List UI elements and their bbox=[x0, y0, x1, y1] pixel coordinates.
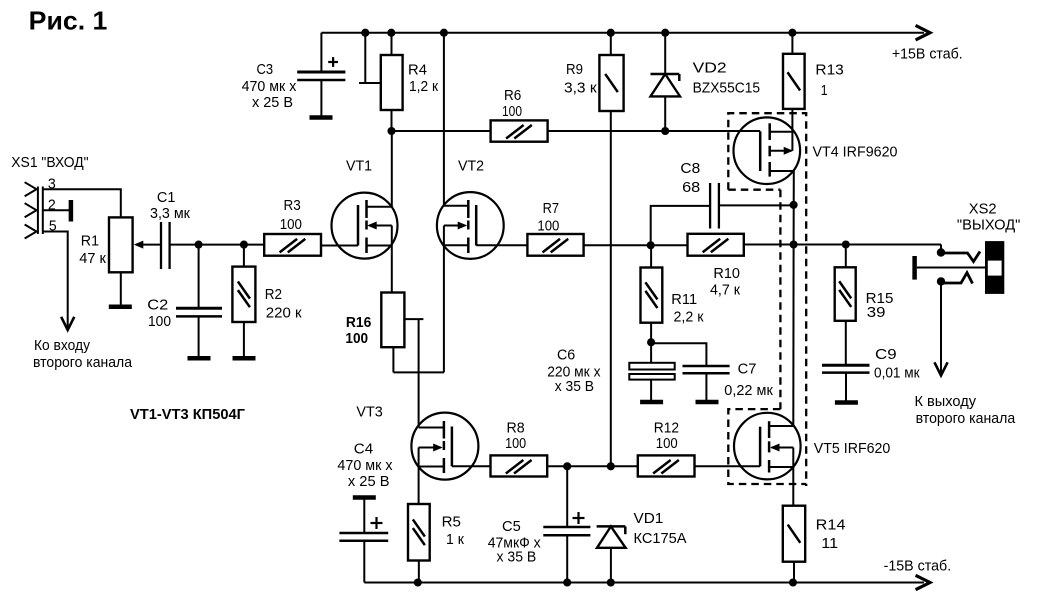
wire C1 to R3 bbox=[170, 244, 265, 246]
resistor R2 bbox=[232, 245, 302, 356]
capacitor C7 bbox=[651, 343, 773, 400]
resistor R10 bbox=[651, 234, 744, 299]
resistor R4 bbox=[381, 33, 439, 131]
svg-text:R10: R10 bbox=[713, 266, 740, 282]
svg-text:47 к: 47 к bbox=[79, 251, 106, 267]
svg-text:второго канала: второго канала bbox=[33, 355, 133, 371]
wire VT2 gate to R7 bbox=[584, 244, 651, 246]
svg-text:XS1 "ВХОД": XS1 "ВХОД" bbox=[11, 155, 88, 171]
svg-text:КС175А: КС175А bbox=[634, 531, 687, 547]
transistor VT2 bbox=[437, 33, 528, 373]
svg-text:100: 100 bbox=[345, 331, 368, 347]
junction R11-C6-C7 bbox=[647, 338, 655, 346]
svg-text:470 мк х: 470 мк х bbox=[242, 79, 297, 95]
svg-text:C3: C3 bbox=[257, 62, 274, 78]
junction C8-VT4 drain line bbox=[790, 201, 798, 209]
svg-text:100: 100 bbox=[502, 104, 522, 120]
junction R7-R10-R11-C8 node bbox=[647, 241, 655, 249]
svg-text:х 25 В: х 25 В bbox=[348, 474, 390, 490]
svg-text:+15В стаб.: +15В стаб. bbox=[892, 46, 963, 62]
junction rail-R13 bbox=[788, 29, 796, 37]
svg-text:R4: R4 bbox=[408, 63, 427, 79]
wire R12 to VT5 gate bbox=[695, 465, 761, 467]
power +15V arrow bbox=[917, 26, 930, 39]
resistor R6 bbox=[491, 88, 548, 142]
svg-text:VT2: VT2 bbox=[458, 159, 484, 175]
capacitor C2 bbox=[147, 245, 222, 356]
svg-text:К выходу: К выходу bbox=[915, 394, 977, 410]
junction VD2 anode / gate line bbox=[661, 127, 669, 135]
svg-text:VD2: VD2 bbox=[693, 61, 727, 77]
wire VT1 drain to VT4 gate line bbox=[392, 130, 761, 132]
svg-text:R3: R3 bbox=[284, 198, 301, 214]
svg-text:0,01 мк: 0,01 мк bbox=[874, 366, 920, 382]
svg-text:0,22 мк: 0,22 мк bbox=[724, 383, 773, 399]
svg-text:VT3: VT3 bbox=[356, 404, 382, 420]
resistor R7 bbox=[527, 201, 583, 256]
ground under C3 bbox=[310, 115, 333, 120]
wire XS1 pin5 down bbox=[43, 232, 68, 329]
junction output-VT4VT5 bbox=[790, 240, 798, 248]
power -15V arrow bbox=[917, 576, 930, 589]
svg-text:VT1-VT3 КП504Г: VT1-VT3 КП504Г bbox=[130, 407, 245, 423]
svg-text:3,3 к: 3,3 к bbox=[564, 81, 597, 97]
svg-text:VD1: VD1 bbox=[634, 511, 664, 527]
svg-text:2: 2 bbox=[48, 198, 56, 214]
svg-text:C7: C7 bbox=[738, 362, 757, 378]
svg-text:39: 39 bbox=[867, 305, 886, 321]
svg-text:BZX55C15: BZX55C15 bbox=[693, 81, 761, 97]
label +15V net bbox=[892, 46, 963, 62]
wire R1 bottom to ground bbox=[120, 272, 122, 305]
svg-text:220 к: 220 к bbox=[266, 305, 302, 321]
ground under R1 bbox=[109, 305, 132, 310]
junction rail-R4 bbox=[387, 29, 395, 37]
label VT1-VT3 type bbox=[130, 407, 245, 423]
svg-text:х 35 В: х 35 В bbox=[497, 550, 537, 566]
resistor R11 bbox=[641, 245, 705, 342]
svg-text:VT1: VT1 bbox=[346, 159, 372, 175]
wire +15V top rail bbox=[321, 32, 924, 34]
svg-text:XS2: XS2 bbox=[969, 202, 997, 218]
transistor VT3 bbox=[356, 404, 490, 504]
transistor VT5 IRF620 bbox=[734, 245, 890, 506]
svg-text:C5: C5 bbox=[502, 519, 521, 535]
svg-text:C4: C4 bbox=[354, 441, 373, 457]
resistor R3 bbox=[264, 198, 321, 256]
wire VT2 source to R16 bottom bbox=[393, 347, 444, 372]
resistor R15 bbox=[835, 245, 894, 365]
junction rail-VD2 bbox=[661, 29, 669, 37]
resistor R5 bbox=[408, 504, 465, 583]
wire R1 wiper arrow from C1 bbox=[134, 241, 161, 249]
ground under C7 bbox=[696, 400, 719, 405]
svg-text:х 25 В: х 25 В bbox=[252, 95, 293, 111]
svg-text:R6: R6 bbox=[504, 88, 521, 104]
wire XS1 pin3 to R1 bbox=[43, 189, 121, 217]
svg-text:R14: R14 bbox=[816, 517, 846, 533]
arrow to second channel input bbox=[62, 318, 74, 330]
svg-text:100: 100 bbox=[537, 218, 559, 234]
connector XS2 output jack bbox=[915, 202, 1021, 293]
svg-text:470 мк х: 470 мк х bbox=[337, 458, 393, 474]
resistor R12 bbox=[638, 420, 695, 476]
svg-text:11: 11 bbox=[821, 536, 838, 552]
label to output of second channel bbox=[915, 394, 1017, 427]
svg-text:100: 100 bbox=[148, 314, 171, 330]
wire R8 to R12 bias line bbox=[547, 465, 638, 467]
junction R2 node bbox=[240, 241, 248, 249]
potentiometer R1 bbox=[79, 217, 132, 272]
svg-text:R8: R8 bbox=[507, 420, 525, 436]
resistor R9 bbox=[564, 33, 624, 466]
junction rail-R9 bbox=[607, 29, 615, 37]
svg-text:C8: C8 bbox=[680, 161, 700, 177]
resistor R8 bbox=[491, 420, 548, 476]
svg-text:1 к: 1 к bbox=[446, 532, 465, 548]
junction output-R15 bbox=[842, 240, 850, 248]
wire -15V bottom rail bbox=[364, 582, 924, 584]
ground under C2 bbox=[188, 356, 211, 361]
svg-text:100: 100 bbox=[280, 217, 302, 233]
junction bias-R9VD1 bbox=[607, 462, 615, 470]
resistor R16 bbox=[345, 293, 404, 348]
svg-text:VT5 IRF620: VT5 IRF620 bbox=[814, 441, 891, 457]
svg-text:R2: R2 bbox=[265, 287, 282, 303]
svg-text:R7: R7 bbox=[543, 201, 559, 217]
pin 2 label bbox=[48, 198, 56, 214]
zener diode VD1 КС175А bbox=[597, 511, 687, 582]
transistor VT1 bbox=[321, 131, 398, 293]
capacitor C8 bbox=[651, 161, 794, 245]
label -15V net bbox=[884, 558, 952, 574]
svg-text:Ко входу: Ко входу bbox=[34, 338, 91, 354]
arrow to second channel output bbox=[935, 364, 947, 376]
svg-text:C1: C1 bbox=[157, 190, 176, 206]
svg-text:2,2 к: 2,2 к bbox=[674, 309, 705, 325]
junction rail-VT2 bbox=[440, 29, 448, 37]
pin 5 label bbox=[49, 219, 57, 235]
resistor R13 bbox=[783, 33, 844, 109]
capacitor C9 bbox=[822, 347, 920, 401]
svg-text:C9: C9 bbox=[875, 347, 897, 363]
svg-text:R5: R5 bbox=[442, 514, 461, 530]
junction bias-C5 bbox=[563, 462, 571, 470]
svg-text:"ВЫХОД": "ВЫХОД" bbox=[957, 218, 1021, 234]
ground under R2 bbox=[233, 356, 256, 361]
resistor R14 bbox=[783, 506, 846, 583]
svg-text:100: 100 bbox=[505, 436, 526, 452]
capacitor C3 bbox=[242, 33, 346, 116]
capacitor C5 electrolytic bbox=[488, 466, 591, 582]
junction rail-R5 bbox=[414, 578, 422, 586]
svg-text:R11: R11 bbox=[671, 292, 697, 308]
svg-text:VT4 IRF9620: VT4 IRF9620 bbox=[813, 145, 898, 161]
junction C1-C2 node bbox=[195, 241, 203, 249]
ground under C9 bbox=[835, 400, 858, 405]
svg-text:R16: R16 bbox=[346, 315, 371, 331]
wire R4 tap to rail bbox=[359, 33, 381, 83]
svg-text:1: 1 bbox=[821, 83, 828, 99]
svg-text:R12: R12 bbox=[654, 420, 679, 436]
svg-text:1,2 к: 1,2 к bbox=[409, 79, 439, 95]
transistor VT4 IRF9620 bbox=[734, 109, 898, 245]
capacitor C6 electrolytic bbox=[547, 342, 675, 400]
svg-text:R13: R13 bbox=[815, 63, 843, 79]
junction rail-VD1 bbox=[607, 578, 615, 586]
svg-text:R9: R9 bbox=[566, 62, 583, 78]
zener diode VD2 BZX55C15 bbox=[651, 33, 761, 131]
svg-text:100: 100 bbox=[656, 436, 678, 452]
svg-text:Рис. 1: Рис. 1 bbox=[29, 6, 108, 36]
svg-text:4,7 к: 4,7 к bbox=[710, 283, 741, 299]
svg-text:220 мк х: 220 мк х bbox=[547, 364, 601, 380]
svg-text:второго канала: второго канала bbox=[916, 411, 1016, 427]
wire XS1 pin2 to chassis bar bbox=[43, 200, 71, 222]
svg-text:C2: C2 bbox=[147, 298, 168, 314]
svg-text:3,3 мк: 3,3 мк bbox=[150, 206, 191, 222]
wire R16 tap to VT3 drain bbox=[404, 319, 423, 427]
pin 3 label bbox=[48, 177, 56, 193]
junction rail-R14 bbox=[789, 578, 797, 586]
thermal coupling dashed box VT4-VT5 bbox=[728, 113, 806, 486]
svg-text:-15В стаб.: -15В стаб. bbox=[884, 558, 952, 574]
wire XS2 ring to second channel bbox=[940, 283, 942, 374]
svg-text:R1: R1 bbox=[81, 234, 99, 250]
junction rail-C3tap bbox=[361, 29, 369, 37]
capacitor C1 bbox=[150, 190, 191, 269]
svg-text:68: 68 bbox=[682, 180, 700, 196]
svg-text:х 35 В: х 35 В bbox=[555, 379, 594, 395]
connector XS1 input jack bbox=[11, 155, 88, 238]
ground under C6 bbox=[640, 400, 663, 405]
label to input of second channel bbox=[33, 338, 133, 371]
svg-text:C6: C6 bbox=[557, 348, 575, 364]
label title bbox=[29, 6, 108, 36]
junction R4-VT1 drain node bbox=[387, 127, 395, 135]
wire output line R10 to XS2 bbox=[744, 244, 941, 246]
capacitor C4 electrolytic bbox=[337, 441, 393, 582]
junction rail-C5 bbox=[563, 578, 571, 586]
